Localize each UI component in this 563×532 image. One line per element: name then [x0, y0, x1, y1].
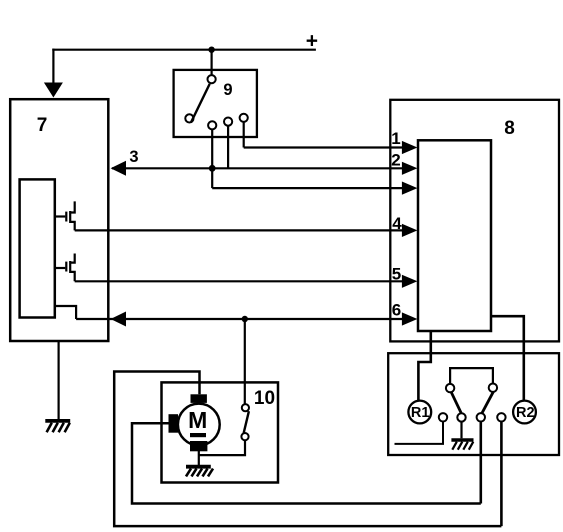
svg-text:10: 10 — [254, 388, 275, 409]
svg-text:6: 6 — [392, 301, 401, 320]
svg-text:1: 1 — [391, 129, 400, 148]
svg-text:+: + — [306, 29, 318, 52]
svg-text:7: 7 — [37, 115, 48, 136]
svg-text:R2: R2 — [516, 405, 535, 421]
svg-text:M: M — [188, 407, 207, 433]
svg-text:2: 2 — [391, 151, 400, 170]
svg-text:8: 8 — [504, 118, 515, 139]
svg-text:4: 4 — [392, 214, 402, 233]
svg-text:3: 3 — [129, 148, 138, 166]
svg-text:5: 5 — [392, 265, 401, 284]
svg-text:9: 9 — [223, 81, 232, 99]
svg-text:R1: R1 — [411, 405, 430, 421]
